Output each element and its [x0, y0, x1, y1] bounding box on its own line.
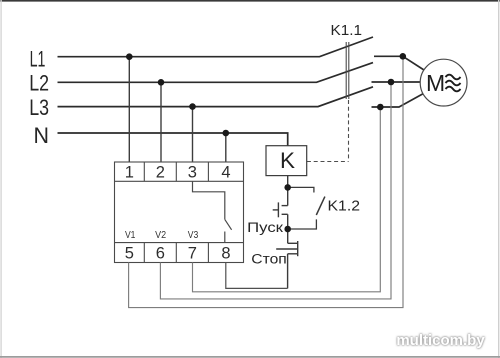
svg-text:2: 2	[156, 164, 165, 182]
svg-text:V2: V2	[155, 229, 166, 241]
svg-text:L2: L2	[29, 70, 49, 95]
svg-text:M: M	[426, 70, 445, 96]
svg-text:V1: V1	[125, 229, 136, 241]
svg-text:multicom.by: multicom.by	[396, 332, 485, 349]
svg-text:8: 8	[221, 245, 230, 263]
svg-text:7: 7	[188, 245, 197, 263]
svg-text:K: K	[280, 148, 295, 173]
svg-text:6: 6	[156, 245, 165, 263]
svg-text:1: 1	[125, 164, 134, 182]
svg-text:L3: L3	[29, 95, 49, 120]
svg-text:K1.1: K1.1	[331, 23, 363, 39]
svg-text:Стоп: Стоп	[251, 252, 286, 267]
svg-text:Пуск: Пуск	[247, 220, 283, 235]
svg-text:5: 5	[125, 245, 134, 263]
svg-text:K1.2: K1.2	[328, 199, 361, 215]
svg-text:3: 3	[188, 164, 197, 182]
svg-text:L1: L1	[30, 46, 46, 71]
svg-text:N: N	[34, 123, 50, 148]
svg-text:V3: V3	[188, 229, 199, 241]
svg-text:4: 4	[221, 164, 230, 182]
